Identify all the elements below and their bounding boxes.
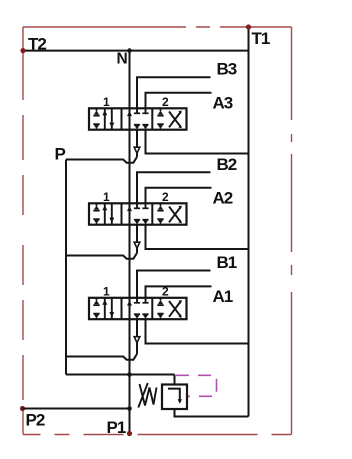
valve V3 neutral blocked feed (bottom stub B side): [134, 125, 140, 130]
valve V2 neutral blocked A port (top stub): [142, 203, 148, 208]
wire work port A2: [146, 188, 212, 204]
wire P gallery bottom run to relief valve inlet: [66, 374, 175, 376]
port T1 node: [246, 24, 251, 29]
svg-text:A1: A1: [213, 287, 233, 306]
relief valve internal arrowhead: [178, 399, 182, 404]
junction P gallery x open-center gallery: [127, 372, 132, 377]
svg-text:B2: B2: [217, 155, 237, 174]
valve V2 divider position1/neutral: [121, 203, 123, 224]
wire work port B3: [137, 77, 211, 108]
wire P parallel feed branch to section V1 (hop at N gallery): [66, 354, 137, 360]
valve V3 neutral blocked return (bottom stub A side): [142, 125, 148, 130]
valve V2 pos2 blocked port symbol (top): [157, 203, 163, 210]
relief valve adjustment arrow: [138, 383, 148, 408]
wire relief valve outlet to tank gallery: [175, 409, 249, 417]
port P2 node: [20, 406, 25, 411]
valve V3 neutral blocked A port (top stub): [142, 108, 148, 113]
wire tank return gallery (right side, T1 down): [248, 27, 250, 417]
valve V3 envelope box: [89, 108, 187, 129]
valve V3 neutral open-center arrow up (on N gallery): [127, 111, 132, 116]
wire check arrow tail: [136, 343, 138, 354]
valve V3 divider position1/neutral: [121, 108, 123, 129]
enclosure bottom edge: [23, 434, 292, 436]
valve V2 pos1 blocked port symbol (bottom): [93, 219, 99, 225]
wire open-center gallery N (vertical through all sections to P1): [129, 51, 131, 434]
wire check arrow tail: [136, 248, 138, 253]
wire P parallel feed branch to section V3 (hop at N gallery): [66, 157, 137, 163]
valve V2 divider neutral/position2: [151, 203, 153, 224]
valve V2 pos2 blocked port symbol (bottom): [157, 219, 163, 225]
enclosure left edge: [22, 27, 24, 435]
valve V3 pos2 blocked port symbol (bottom): [157, 124, 163, 130]
relief valve pilot line (dashed): [176, 375, 217, 396]
relief valve internal flow path: [168, 389, 180, 401]
wire P supply gallery (left vertical): [65, 160, 67, 375]
wire relief valve inlet drop: [174, 375, 176, 385]
valve V1 pos2 blocked port symbol (top): [157, 298, 163, 305]
valve V2 pos2 crossed flow arrows: [169, 206, 182, 224]
junction node N at tank line: [127, 48, 132, 53]
valve V3 pos1 blocked port symbol (top): [93, 108, 99, 115]
svg-text:P: P: [55, 145, 66, 164]
valve V1 pos2 crossed flow arrows: [169, 300, 182, 318]
svg-text:2: 2: [162, 190, 169, 204]
valve V1 pos1 flow arrow up: [102, 298, 107, 319]
valve V2 pos1 flow arrow down: [109, 203, 114, 224]
valve body enclosure (dashed red boundary) - top edge: [23, 26, 292, 28]
valve V1 pos1 blocked port symbol (bottom): [93, 314, 99, 320]
svg-text:P2: P2: [26, 411, 45, 430]
valve V1 neutral blocked feed (bottom stub B side): [134, 314, 140, 319]
svg-text:B3: B3: [217, 60, 237, 79]
svg-text:T1: T1: [252, 29, 270, 48]
valve V1 neutral blocked A port (top stub): [142, 298, 148, 303]
svg-text:1: 1: [103, 284, 110, 298]
wire section V1 return to tank gallery: [146, 319, 249, 343]
relief valve RV body box: [162, 385, 187, 410]
wire work port A3: [146, 93, 212, 109]
svg-text:2: 2: [162, 95, 169, 109]
check flow arrow (open arrowhead) below V2: [134, 242, 140, 248]
wire check arrow tail: [136, 153, 138, 157]
wire section feed below V1: [136, 319, 138, 337]
svg-text:T2: T2: [28, 35, 46, 54]
valve V1 divider position1/neutral: [121, 298, 123, 319]
wire work port B2: [137, 172, 211, 203]
valve V3 pos1 flow arrow down: [109, 108, 114, 129]
wire section feed below V2: [136, 225, 138, 243]
svg-text:N: N: [117, 51, 128, 68]
valve V3 pos2 crossed flow arrows: [169, 111, 182, 129]
valve V2 neutral blocked feed (bottom stub B side): [134, 220, 140, 225]
wire section V3 return to tank gallery: [146, 130, 249, 154]
svg-text:P1: P1: [107, 418, 126, 437]
valve V3 neutral blocked B port (top stub): [134, 108, 140, 113]
valve V2 neutral open-center arrow up (on N gallery): [127, 206, 132, 211]
port T2 node: [20, 48, 25, 53]
valve V1 pos1 blocked port symbol (top): [93, 298, 99, 305]
valve V2 pos1 blocked port symbol (top): [93, 203, 99, 210]
enclosure right edge: [291, 27, 293, 435]
svg-text:A2: A2: [213, 188, 233, 207]
valve V1 pos2 blocked port symbol (bottom): [157, 314, 163, 320]
relief valve spring: [140, 384, 157, 406]
valve V3 divider neutral/position2: [151, 108, 153, 129]
valve V2 neutral blocked B port (top stub): [134, 203, 140, 208]
svg-text:A3: A3: [213, 93, 233, 112]
wire section feed below V3: [136, 130, 138, 148]
wire P parallel feed branch to section V2 (hop at N gallery): [66, 253, 137, 259]
svg-text:1: 1: [103, 95, 110, 109]
valve V1 divider neutral/position2: [151, 298, 153, 319]
valve V1 neutral blocked return (bottom stub A side): [142, 314, 148, 319]
valve V3 pos1 blocked port symbol (bottom): [93, 124, 99, 130]
valve V2 pos1 flow arrow up: [102, 203, 107, 224]
valve V1 neutral open-center arrow up (on N gallery): [127, 300, 132, 305]
valve V1 pos1 flow arrow down: [109, 298, 114, 319]
wire work port A1: [146, 286, 212, 297]
wire P2 inlet line: [23, 408, 130, 410]
port P1 node: [127, 431, 132, 436]
valve V1 neutral blocked B port (top stub): [134, 298, 140, 303]
valve V1 envelope box: [89, 298, 187, 319]
svg-text:1: 1: [103, 190, 110, 204]
junction P2 at pump line: [127, 406, 132, 411]
valve V3 pos1 flow arrow up: [102, 108, 107, 129]
svg-text:B1: B1: [217, 253, 237, 272]
wire work port B1: [137, 271, 211, 298]
valve V2 neutral blocked return (bottom stub A side): [142, 220, 148, 225]
check flow arrow (open arrowhead) below V3: [134, 147, 140, 153]
wire T2 to tank gallery (top tank line): [23, 50, 249, 52]
valve V2 envelope box: [89, 203, 187, 224]
valve V3 pos2 blocked port symbol (top): [157, 108, 163, 115]
wire section V2 return to tank gallery: [146, 225, 249, 249]
check flow arrow (open arrowhead) below V1: [134, 337, 140, 343]
